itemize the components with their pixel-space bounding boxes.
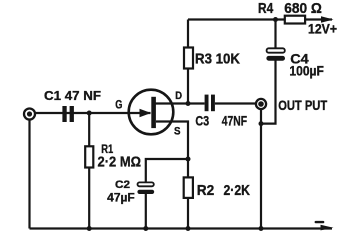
resistor R1 [85, 146, 93, 167]
node: output / C4 / ground junction [259, 121, 264, 126]
wire: source junction branch to C2 [146, 159, 188, 183]
capacitor C2 (electrolytic) [137, 182, 154, 194]
resistor R2 [184, 177, 193, 198]
svg-text:680 Ω: 680 Ω [284, 1, 322, 17]
node: drain junction [186, 101, 191, 106]
svg-text:D: D [175, 90, 182, 102]
node: C2 ground junction [143, 226, 148, 231]
svg-text:2·2 MΩ: 2·2 MΩ [98, 153, 142, 170]
wire: R1 branch from gate junction to ground rail [88, 113, 90, 229]
capacitor C3 [205, 95, 215, 112]
svg-text:G: G [115, 100, 122, 112]
svg-text:12V+: 12V+ [308, 22, 337, 37]
wire: vertical drop from top rail to R3 and drain [187, 20, 189, 104]
input jack J1 [24, 109, 35, 120]
wire: output jack shield down to ground rail [260, 109, 262, 229]
node: source / C2 junction [186, 157, 191, 162]
svg-text:R4: R4 [258, 1, 273, 17]
node: top rail / C4 junction [273, 17, 278, 22]
svg-text:100µF: 100µF [289, 64, 324, 79]
wire: input jack shield down to ground rail [28, 119, 30, 229]
wire: source line from Q1 down to R2 and ground [156, 122, 188, 229]
wire: C3 to output jack [215, 102, 257, 104]
node: R1 ground junction [87, 226, 92, 231]
wire: bottom ground rail [30, 227, 333, 229]
svg-text:47NF: 47NF [222, 114, 247, 129]
svg-text:OUT PUT: OUT PUT [278, 98, 328, 113]
wire: C2 bottom to ground rail [145, 194, 147, 229]
svg-text:C1 47 NF: C1 47 NF [44, 88, 101, 103]
resistor R3 [184, 48, 193, 69]
svg-text:S: S [174, 125, 181, 137]
svg-text:R3 10K: R3 10K [195, 50, 240, 67]
svg-text:C2: C2 [115, 179, 130, 191]
minus sign above ground arrow [315, 221, 325, 223]
node: output ground junction [259, 226, 264, 231]
resistor R4 [285, 16, 305, 24]
ground rail arrow (negative supply) [321, 225, 334, 231]
svg-text:C3: C3 [195, 114, 209, 129]
capacitor C1 [62, 106, 74, 122]
output jack J2 [256, 99, 266, 109]
arrow to +12V supply [321, 16, 334, 22]
svg-text:2·2K: 2·2K [224, 183, 251, 199]
wire: gate line from input through C1 to Q1 [35, 112, 151, 114]
transistor Q1 (JFET) [129, 90, 174, 135]
svg-text:47µF: 47µF [107, 193, 135, 205]
wire: C4 bottom to output-ground junction [261, 61, 276, 124]
svg-text:R2: R2 [197, 183, 215, 199]
wire: top rail from R3 corner to +12V arrow [188, 18, 332, 20]
node: R2 ground junction [186, 226, 191, 231]
capacitor C4 (electrolytic) [266, 48, 285, 60]
wire: drain line from Q1 to C3 [154, 102, 205, 104]
node: gate / R1 junction [87, 111, 92, 116]
wire: top rail junction down to C4 top [274, 20, 276, 49]
